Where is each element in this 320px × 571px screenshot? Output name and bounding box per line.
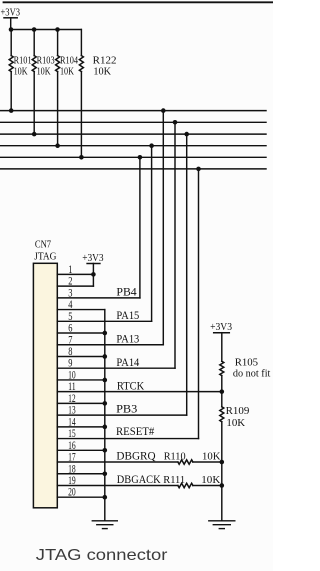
wire horizontal bus PB3 net	[0, 133, 266, 135]
power +3V3 rail symbol (top left)	[1, 7, 21, 29]
pin 5 of CN7	[57, 311, 151, 323]
wire rail to R104 top	[57, 30, 59, 56]
svg-text:DBGRQ: DBGRQ	[116, 451, 155, 463]
wire rail to R103 top	[33, 30, 35, 56]
junction bus PB4 net drop	[138, 155, 143, 160]
wire R103 bottom to bus	[33, 72, 35, 135]
pin 11 of CN7	[57, 381, 222, 393]
junction pin 12 on ground bus	[103, 401, 108, 406]
wire R104 bottom to bus	[57, 72, 59, 146]
junction RTCK / R105 / R109	[220, 389, 225, 394]
pin 19 of CN7	[57, 475, 222, 487]
svg-text:CN7: CN7	[35, 239, 51, 250]
svg-text:+3V3: +3V3	[1, 7, 21, 18]
junction on +3V3 rail at R101	[9, 27, 14, 32]
ground symbol (connector)	[92, 521, 117, 529]
svg-text:RTCK: RTCK	[117, 380, 144, 392]
pin 3 of CN7	[57, 287, 140, 299]
svg-text:JTAG: JTAG	[34, 252, 56, 263]
svg-text:10K: 10K	[14, 67, 29, 78]
resistor R103	[32, 56, 36, 72]
wire vertical drop to pin 13	[186, 134, 188, 415]
wire vertical drop to pin 15	[198, 169, 200, 439]
resistor R109	[220, 407, 224, 422]
pin 18 of CN7	[57, 463, 105, 475]
wire rail to R122 top	[80, 30, 82, 56]
junction pin 8 on ground bus	[103, 354, 108, 359]
resistor R105	[220, 361, 224, 375]
power +3V3 symbol at pin 1	[82, 253, 103, 286]
svg-text:R111: R111	[163, 474, 185, 486]
junction pin 6 on ground bus	[103, 331, 108, 336]
pin 15 of CN7	[57, 428, 198, 440]
junction R103 on bus	[32, 132, 37, 137]
svg-text:10K: 10K	[60, 67, 75, 78]
svg-text:R103: R103	[37, 55, 55, 66]
wire RTCK junction to R109	[221, 392, 223, 407]
junction DBGACK pull-down	[220, 483, 225, 488]
junction DBGRQ pull-down	[220, 460, 225, 465]
junction bus PA14 net drop	[173, 120, 178, 125]
wire top rail going off-page	[4, 1, 274, 3]
svg-text:10K: 10K	[226, 417, 245, 429]
wire +3V3 rail to pull-up resistors	[11, 29, 82, 31]
pin 16 of CN7	[57, 440, 105, 452]
resistor R111	[178, 483, 193, 487]
wire rail to R101 top	[10, 30, 12, 56]
junction on +3V3 rail at R104	[55, 27, 60, 32]
junction bus PA15 net drop	[149, 143, 154, 148]
resistor R104	[56, 56, 60, 72]
junction pin 18 on ground bus	[103, 471, 108, 476]
svg-text:R109: R109	[226, 405, 250, 417]
connector CN7 JTAG body	[33, 263, 57, 508]
wire R105 to RTCK junction	[221, 376, 223, 392]
junction pin 10 on ground bus	[103, 378, 108, 383]
junction bus RESET# net drop	[196, 167, 201, 172]
resistor R110	[178, 460, 193, 464]
junction pin 16 on ground bus	[103, 448, 108, 453]
wire vertical drop to pin 9	[174, 122, 176, 368]
pin 12 of CN7	[57, 393, 105, 405]
svg-text:PB3: PB3	[116, 404, 138, 416]
pin 17 of CN7	[57, 452, 222, 464]
svg-text:JTAG connector: JTAG connector	[36, 547, 168, 564]
svg-text:10K: 10K	[37, 67, 52, 78]
junction pin 20 on ground bus	[103, 495, 108, 500]
wire horizontal bus PA13 net	[0, 110, 266, 112]
junction bus PA13 net drop	[161, 108, 166, 113]
junction R122 on bus	[79, 155, 84, 160]
pin 14 of CN7	[57, 416, 105, 428]
wire R122 bottom to bus	[80, 72, 82, 158]
svg-text:10K: 10K	[93, 66, 111, 78]
pin 1 of CN7	[57, 264, 93, 276]
svg-text:R104: R104	[60, 55, 78, 66]
pin 6 of CN7	[57, 323, 105, 335]
wire horizontal bus PA14 net	[0, 121, 266, 123]
wire ground bus of even pins	[104, 310, 106, 521]
svg-text:PA15: PA15	[116, 310, 139, 322]
pin 7 of CN7	[57, 334, 163, 346]
wire horizontal bus PB4 net	[0, 156, 266, 158]
pin 13 of CN7	[57, 405, 186, 417]
pin 9 of CN7	[57, 358, 175, 370]
wire horizontal bus RESET# net	[0, 168, 266, 170]
junction pin 14 on ground bus	[103, 425, 108, 430]
pin 20 of CN7	[57, 487, 105, 499]
wire R101 bottom to bus	[10, 72, 12, 111]
svg-text:RESET#: RESET#	[116, 426, 155, 438]
junction on +3V3 rail at R103	[32, 27, 37, 32]
wire horizontal bus PA15 net	[0, 145, 266, 147]
svg-text:PA14: PA14	[116, 357, 139, 369]
svg-text:DBGACK: DBGACK	[117, 474, 161, 486]
junction R101 on bus	[9, 108, 14, 113]
svg-text:+3V3: +3V3	[210, 322, 232, 333]
pin 4 of CN7	[57, 299, 105, 311]
junction bus PB3 net drop	[184, 132, 189, 137]
svg-text:R110: R110	[164, 450, 186, 462]
resistor R122	[79, 56, 83, 72]
ground symbol (right)	[209, 521, 235, 529]
wire R109 to ground	[221, 422, 223, 520]
svg-text:10K: 10K	[201, 474, 220, 486]
junction R104 on bus	[55, 143, 60, 148]
svg-text:PB4: PB4	[116, 286, 137, 298]
pin 8 of CN7	[57, 346, 105, 358]
svg-text:R101: R101	[14, 55, 32, 66]
wire vertical drop to pin 3	[139, 157, 141, 298]
svg-text:10K: 10K	[202, 450, 221, 462]
svg-text:+3V3: +3V3	[82, 253, 103, 264]
power +3V3 symbol at R105	[210, 322, 232, 361]
svg-text:PA13: PA13	[116, 333, 139, 345]
pin 10 of CN7	[57, 369, 105, 381]
wire vertical drop to pin 7	[162, 111, 164, 345]
junction pin1 +3V3	[91, 272, 96, 277]
pin 2 of CN7	[57, 276, 93, 288]
svg-text:R105: R105	[235, 356, 259, 368]
resistor R101	[9, 56, 13, 72]
svg-text:do not fit: do not fit	[233, 368, 271, 379]
wire vertical drop to pin 5	[151, 146, 153, 322]
